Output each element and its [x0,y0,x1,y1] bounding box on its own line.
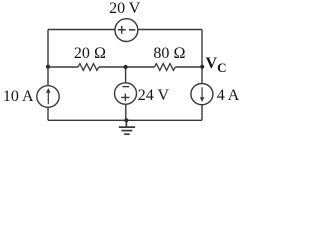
current source I2 4 A [191,84,213,105]
resistor R1 20 ohm [78,64,99,71]
wire middle rail segment 2 [99,66,155,68]
svg-text:10 A: 10 A [3,88,34,105]
ground [119,120,135,134]
node ground junction [124,118,128,122]
wire left rail vertical [47,30,49,87]
svg-text:24 V: 24 V [138,87,170,104]
wire bottom rail [48,119,202,121]
node junction 24V top [124,65,128,69]
node junction left rail / middle rail [46,65,50,69]
wire middle rail segment 1 [48,66,78,68]
wire right rail lower vertical [201,67,203,84]
svg-text:80 Ω: 80 Ω [153,45,185,62]
node VC junction [200,65,204,69]
wire 24V source top to middle rail [125,67,127,83]
wire top rail left segment [48,29,115,31]
wire right rail upper vertical [201,30,203,68]
svg-text:20 Ω: 20 Ω [74,45,106,62]
wire middle rail segment 3 [176,66,203,68]
svg-text:VC: VC [206,55,227,75]
voltage source V2 24 V [115,83,137,104]
voltage source V1 20 V [115,19,138,42]
wire 4A source to bottom rail [201,105,203,121]
svg-text:4 A: 4 A [217,87,240,104]
wire 10A source to bottom rail [47,107,49,120]
wire top rail right segment [138,29,202,31]
resistor R2 80 ohm [155,64,176,71]
current source I1 10 A [37,86,59,108]
svg-text:20 V: 20 V [109,0,141,17]
wire 24V source bottom to ground junction [125,104,127,120]
